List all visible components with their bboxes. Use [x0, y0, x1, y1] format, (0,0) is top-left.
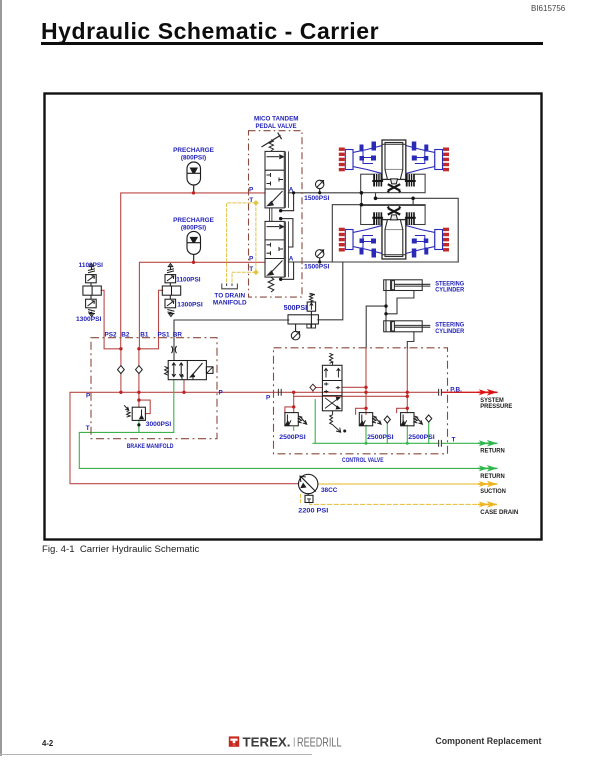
- gauge 1500psi (rear): [316, 250, 324, 262]
- svg-text:MICO TANDEM: MICO TANDEM: [254, 115, 299, 122]
- svg-text:P: P: [86, 393, 91, 400]
- svg-text:A: A: [289, 186, 294, 193]
- 3000psi pressure reducing valve: [124, 405, 145, 420]
- return arrows 2: [478, 465, 497, 472]
- svg-text:SUCTION: SUCTION: [480, 488, 506, 495]
- wire: control valve pressure lines: [293, 392, 295, 412]
- plugged BR port: [172, 346, 177, 353]
- svg-text:1100PSI: 1100PSI: [79, 262, 103, 269]
- relief valve 2500psi (middle): [359, 413, 381, 426]
- svg-text:T: T: [452, 436, 456, 443]
- wire: check valve riser before control valve spool: [313, 385, 323, 393]
- control valve dashed enclosure: [274, 348, 448, 454]
- svg-text:1300PSI: 1300PSI: [76, 316, 102, 323]
- system pressure arrows: [478, 389, 497, 396]
- check valve (PS2/B2 leg): [118, 366, 125, 374]
- check valve on spool feed: [310, 384, 316, 391]
- wire: BR port to priority block: [174, 320, 289, 361]
- wire: steering cylinder links: [385, 291, 387, 321]
- svg-text:B1: B1: [140, 331, 149, 338]
- node T1 yellow: [253, 200, 259, 206]
- pedal valve section 1 body: [265, 151, 284, 208]
- relief valve 2500psi (right): [401, 413, 423, 426]
- svg-text:CYLINDER: CYLINDER: [435, 328, 464, 335]
- gauge 1500psi (front): [316, 180, 324, 193]
- section1 A-port loop: [281, 193, 294, 247]
- section 1 spool arrows: [267, 156, 280, 158]
- svg-text:1300PSI: 1300PSI: [177, 302, 203, 309]
- svg-text:1500PSI: 1500PSI: [304, 264, 329, 271]
- wire PS1 from right relief stack: [139, 290, 163, 349]
- port break P.B.: [439, 389, 442, 396]
- svg-text:1100PSI: 1100PSI: [176, 277, 200, 284]
- relief stack B (1100/1300psi): [162, 264, 180, 317]
- svg-text:P.B.: P.B.: [450, 386, 462, 393]
- rear axle assembly: [339, 220, 449, 259]
- pedal lever: [262, 133, 282, 147]
- solenoid brake valve: [165, 361, 214, 380]
- rear axle spring brake actuators: [372, 206, 415, 225]
- svg-text:BRAKE MANIFOLD: BRAKE MANIFOLD: [127, 443, 174, 450]
- relief stack A (1100/1300psi): [83, 264, 101, 317]
- section 1 side rail: [286, 151, 289, 208]
- pedal return spring: [269, 140, 273, 152]
- shuttle check (right): [426, 415, 432, 422]
- svg-text:CONTROL VALVE: CONTROL VALVE: [342, 457, 384, 464]
- wire: solenoid valve P port drop: [183, 380, 185, 393]
- wire: case drain dashed: [310, 503, 497, 505]
- steering cylinder 2: [384, 321, 431, 332]
- blue schematic labels: [76, 115, 465, 514]
- svg-text:PRECHARGE: PRECHARGE: [173, 217, 215, 224]
- wire B2 column through check to P line: [120, 349, 122, 393]
- tandem link: [270, 208, 272, 222]
- wire: pedal valve A2 / rear axle line: [288, 261, 458, 263]
- svg-text:1500PSI: 1500PSI: [304, 195, 329, 202]
- section2 A-port loop: [281, 262, 294, 279]
- port break T out: [439, 440, 442, 447]
- drain manifold bracket: [222, 284, 238, 289]
- priority flow block: [288, 311, 318, 331]
- case drain arrows: [478, 501, 497, 508]
- svg-text:P: P: [219, 390, 224, 397]
- svg-text:PEDAL VALVE: PEDAL VALVE: [256, 123, 298, 130]
- svg-text:CASE DRAIN: CASE DRAIN: [480, 509, 518, 516]
- node T2 yellow: [253, 269, 259, 275]
- svg-text:P: P: [249, 186, 254, 193]
- wire: axle interconnect lower: [332, 205, 425, 262]
- pump 38cc: [299, 474, 318, 502]
- svg-text:(800PSI): (800PSI): [181, 155, 206, 162]
- wire: green control valve tank line: [313, 400, 497, 444]
- svg-text:A: A: [289, 256, 294, 263]
- wire: main system pressure line P: [70, 392, 299, 483]
- junction dots (dark): [137, 191, 415, 427]
- 500psi relief valve: [307, 293, 315, 311]
- svg-text:2500PSI: 2500PSI: [367, 434, 394, 441]
- svg-text:B2: B2: [121, 331, 130, 338]
- svg-text:BR: BR: [173, 331, 183, 338]
- wire: steering feed from axle line down to priority block: [318, 262, 343, 320]
- svg-text:38CC: 38CC: [321, 487, 338, 494]
- svg-text:2500PSI: 2500PSI: [279, 434, 306, 441]
- svg-text:PS1: PS1: [158, 331, 171, 338]
- svg-text:P: P: [249, 256, 254, 263]
- front axle brake box: [361, 174, 425, 193]
- svg-text:2200 PSI: 2200 PSI: [298, 507, 328, 514]
- MICO tandem pedal valve dashed enclosure: [249, 131, 303, 297]
- front axle assembly: [339, 140, 449, 179]
- svg-text:PS2: PS2: [105, 331, 118, 338]
- wire: pedal valve tandem drain (yellow dashed): [227, 203, 256, 284]
- rear axle brake box: [361, 205, 425, 224]
- check valve (PS1/B1 leg): [136, 366, 143, 374]
- svg-text:T: T: [86, 425, 90, 432]
- steering spool valve: [322, 353, 346, 432]
- front axle spring brake actuators: [372, 174, 415, 193]
- wire: red P.B. exit: [442, 391, 497, 393]
- brake manifold dashed enclosure: [91, 338, 217, 439]
- wire: green tank line from brake manifold: [79, 380, 497, 469]
- svg-text:T: T: [249, 197, 253, 204]
- wire PS2 from left relief stack: [101, 290, 121, 349]
- steering cylinder 1: [384, 280, 431, 291]
- svg-text:500PSI: 500PSI: [284, 305, 308, 312]
- wire: relief pilot loops in control valve: [356, 408, 408, 414]
- wire: accumulator1 supply to pedal valve 1 P and down to B2: [121, 193, 265, 349]
- relief valve 2500psi (left): [285, 413, 307, 431]
- green dots: [365, 442, 409, 445]
- svg-text:PRESSURE: PRESSURE: [480, 403, 513, 410]
- port break control valve P in: [278, 389, 281, 396]
- svg-text:CYLINDER: CYLINDER: [435, 287, 464, 294]
- pedal valve section 2 body: [265, 221, 284, 277]
- wire B1 column through check to P line: [138, 349, 140, 400]
- wire: 3000psi valve feed and pilot loop: [139, 400, 150, 414]
- suction arrows: [478, 481, 497, 488]
- return arrows 1: [478, 440, 497, 447]
- svg-text:T: T: [249, 266, 253, 273]
- section 2 side rail: [286, 221, 289, 277]
- black port labels: [480, 397, 518, 516]
- svg-text:(800PSI): (800PSI): [181, 225, 206, 232]
- wire: green 3000psi spring drain: [138, 420, 140, 432]
- wire: axle interconnect middle: [376, 198, 459, 262]
- wire: suction line from pump: [318, 483, 497, 485]
- svg-text:P: P: [266, 394, 271, 401]
- svg-text:RETURN: RETURN: [480, 473, 505, 480]
- wire: pedal valve A1 to front axle: [288, 192, 360, 194]
- svg-text:RETURN: RETURN: [480, 447, 505, 454]
- accumulator 1 (800psi precharge): [187, 162, 201, 193]
- section 2 return spring: [268, 277, 274, 292]
- section 2 spool arrows: [267, 226, 280, 228]
- accumulator 2 (800psi precharge): [187, 231, 201, 262]
- steering pressure gauge: [291, 331, 300, 340]
- svg-text:MANIFOLD: MANIFOLD: [213, 299, 247, 306]
- shuttle check (middle): [384, 416, 390, 423]
- svg-text:3000PSI: 3000PSI: [146, 421, 172, 428]
- wire: accumulator2 supply to pedal valve 2 P and down to B1: [139, 262, 265, 349]
- svg-text:2500PSI: 2500PSI: [408, 434, 435, 441]
- svg-text:PRECHARGE: PRECHARGE: [173, 147, 215, 154]
- junction dots (red): [119, 191, 409, 410]
